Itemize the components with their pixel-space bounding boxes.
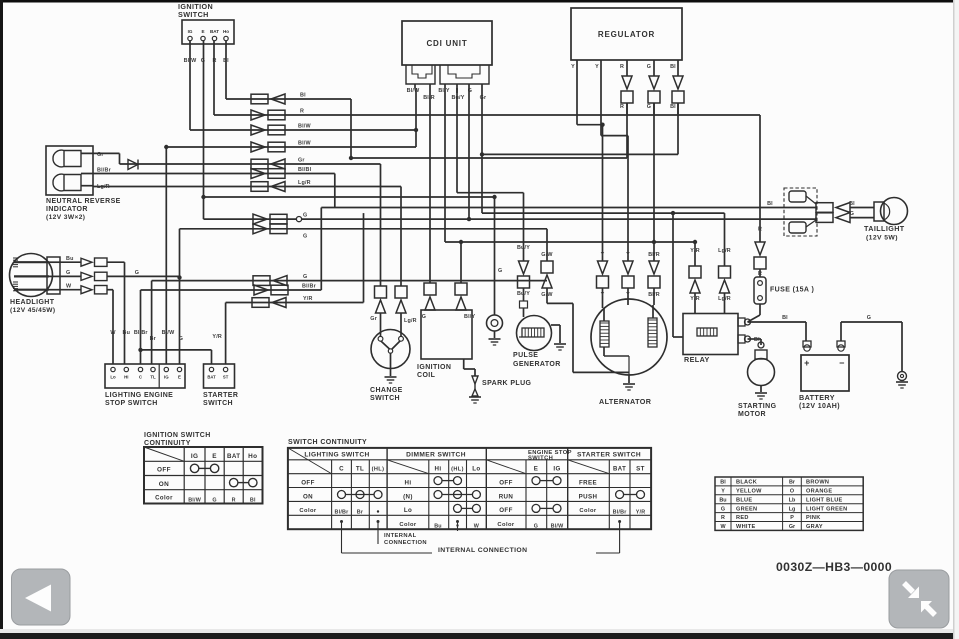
dimmer Lo circles xyxy=(454,504,462,512)
svg-text:Y: Y xyxy=(626,252,630,258)
svg-text:Bl/Bl: Bl/Bl xyxy=(298,167,312,173)
svg-text:Bu: Bu xyxy=(66,256,74,262)
svg-text:Bu/Y: Bu/Y xyxy=(451,95,464,101)
wire row Gr xyxy=(120,163,381,165)
taillight xyxy=(881,198,908,225)
svg-text:Y/R: Y/R xyxy=(636,510,646,516)
svg-text:OFF: OFF xyxy=(499,480,513,487)
svg-text:Hi: Hi xyxy=(405,480,412,487)
svg-text:Bl: Bl xyxy=(300,93,306,99)
svg-text:Gr: Gr xyxy=(789,524,796,530)
svg-text:C: C xyxy=(339,466,344,473)
svg-text:W: W xyxy=(110,330,116,336)
svg-text:Ho: Ho xyxy=(248,453,257,460)
svg-text:Gr: Gr xyxy=(298,158,305,164)
svg-text:R: R xyxy=(758,271,762,277)
relay contacts xyxy=(738,318,745,326)
svg-text:YELLOW: YELLOW xyxy=(736,489,762,495)
svg-text:CDI UNIT: CDI UNIT xyxy=(426,39,467,48)
svg-text:0030Z—HB3—0000: 0030Z—HB3—0000 xyxy=(776,560,892,574)
wire headlight W xyxy=(60,289,81,291)
svg-text:LIGHTING SWITCH: LIGHTING SWITCH xyxy=(304,452,369,459)
svg-text:E: E xyxy=(178,375,181,380)
svg-text:Br: Br xyxy=(357,510,364,516)
svg-text:ON: ON xyxy=(303,493,313,500)
svg-text:R: R xyxy=(758,227,762,233)
svg-text:COIL: COIL xyxy=(417,372,436,379)
svg-text:Color: Color xyxy=(579,508,596,514)
svg-text:Bu: Bu xyxy=(123,330,131,336)
svg-text:Y/R: Y/R xyxy=(212,334,222,340)
svg-text:G: G xyxy=(422,314,426,320)
svg-text:Bl/R: Bl/R xyxy=(648,292,660,298)
svg-text:G: G xyxy=(647,64,651,70)
wire E down xyxy=(203,41,205,219)
svg-text:Color: Color xyxy=(399,522,416,528)
svg-text:OFF: OFF xyxy=(157,467,171,474)
starter PUSH circles xyxy=(616,491,624,499)
svg-text:G/W: G/W xyxy=(541,252,553,258)
svg-text:BLACK: BLACK xyxy=(736,480,757,486)
svg-text:Br: Br xyxy=(150,336,157,342)
svg-text:(N): (N) xyxy=(403,493,413,500)
svg-text:LIGHT BLUE: LIGHT BLUE xyxy=(806,497,843,503)
svg-text:FUSE (15A ): FUSE (15A ) xyxy=(770,287,814,294)
wire row Bl/W lower xyxy=(166,146,416,148)
svg-text:G: G xyxy=(135,270,139,276)
ignition coil xyxy=(421,310,472,359)
svg-text:Bl/W: Bl/W xyxy=(188,498,201,504)
wire row Br branch xyxy=(152,280,547,282)
svg-text:OFF: OFF xyxy=(301,480,315,487)
lighting ON circles xyxy=(338,491,346,499)
svg-text:BROWN: BROWN xyxy=(806,480,829,486)
spark plug xyxy=(472,376,478,384)
fullscreen button xyxy=(889,570,949,628)
svg-text:SPARK PLUG: SPARK PLUG xyxy=(482,380,532,387)
alternator xyxy=(591,299,667,375)
regulator xyxy=(571,8,682,60)
svg-text:Y: Y xyxy=(601,292,605,298)
svg-text:Bl/W: Bl/W xyxy=(551,523,564,529)
svg-text:Color: Color xyxy=(497,522,514,528)
wire headlight G xyxy=(60,275,81,277)
wire to relay coil left xyxy=(672,213,674,337)
regulator diode stacks xyxy=(626,60,628,76)
battery xyxy=(801,355,849,391)
wire Gr from indicator xyxy=(81,152,120,154)
lighting engine stop switch xyxy=(105,364,185,388)
fuse 15A xyxy=(754,277,766,304)
dimmer Hi circles xyxy=(434,477,442,485)
svg-text:WHITE: WHITE xyxy=(736,524,756,530)
svg-text:Gr: Gr xyxy=(370,316,377,322)
svg-text:BAT: BAT xyxy=(207,375,216,380)
svg-text:E: E xyxy=(534,466,539,473)
svg-text:SWITCH: SWITCH xyxy=(370,395,400,402)
svg-text:GENERATOR: GENERATOR xyxy=(513,361,561,368)
svg-text:Lg/R: Lg/R xyxy=(718,248,731,254)
bottom dark bar xyxy=(0,633,959,639)
svg-text:G: G xyxy=(721,506,725,512)
svg-text:Bl/W: Bl/W xyxy=(162,330,175,336)
svg-text:Y: Y xyxy=(601,252,605,258)
svg-text:BLUE: BLUE xyxy=(736,497,752,503)
svg-text:Bl/W: Bl/W xyxy=(298,124,311,130)
svg-text:IGNITION SWITCH: IGNITION SWITCH xyxy=(144,432,211,439)
relay stack Lg/R xyxy=(724,213,726,266)
svg-text:(HL): (HL) xyxy=(451,467,464,473)
svg-text:Ho: Ho xyxy=(223,29,229,34)
svg-text:Lg/R: Lg/R xyxy=(404,318,417,324)
svg-text:Y: Y xyxy=(721,489,725,495)
svg-text:IG: IG xyxy=(553,466,560,473)
back button xyxy=(12,569,71,625)
relay stack Y/R xyxy=(694,242,696,266)
svg-text:G: G xyxy=(647,104,651,110)
wire row G upper to taillight xyxy=(204,218,817,220)
svg-text:Bu/Y: Bu/Y xyxy=(517,291,530,297)
svg-text:G: G xyxy=(212,498,216,504)
svg-text:Lo: Lo xyxy=(110,375,116,380)
wire row Bl/W upper xyxy=(190,129,416,131)
svg-text:G: G xyxy=(303,213,307,219)
alternator stack Y1 xyxy=(602,125,604,261)
wire Br to lighting switch xyxy=(151,281,153,364)
CDI pin stubs xyxy=(414,84,416,88)
wire Lg/R from indicator xyxy=(81,185,93,187)
svg-text:IGNITION: IGNITION xyxy=(417,364,451,371)
svg-text:SWITCH: SWITCH xyxy=(203,400,233,407)
svg-text:SWITCH: SWITCH xyxy=(178,10,209,19)
svg-text:Bl: Bl xyxy=(782,315,788,321)
svg-text:Color: Color xyxy=(299,508,316,514)
svg-text:RED: RED xyxy=(736,515,749,521)
svg-text:STOP SWITCH: STOP SWITCH xyxy=(105,400,158,407)
dimmer N circles xyxy=(434,491,442,499)
svg-text:Gr: Gr xyxy=(480,95,487,101)
svg-text:Hi: Hi xyxy=(124,375,128,380)
relay xyxy=(683,314,738,355)
svg-text:Bu: Bu xyxy=(434,523,442,529)
continuity OFF circles xyxy=(190,464,198,472)
svg-text:E: E xyxy=(212,453,217,460)
svg-text:+: + xyxy=(804,358,810,368)
wire row Bl/Bl xyxy=(81,173,335,175)
svg-text:G: G xyxy=(66,270,70,276)
wire headlight Bu xyxy=(60,261,81,263)
svg-text:G: G xyxy=(867,315,871,321)
internal connection small xyxy=(377,520,380,523)
svg-text:Y: Y xyxy=(626,292,630,298)
svg-text:ORANGE: ORANGE xyxy=(806,489,832,495)
wire Bl/W to lighting switch xyxy=(165,147,167,364)
svg-text:Y/R: Y/R xyxy=(303,296,313,302)
svg-text:Bl/Br: Bl/Br xyxy=(97,167,112,173)
svg-text:Y/R: Y/R xyxy=(690,248,700,254)
svg-text:MOTOR: MOTOR xyxy=(738,411,766,418)
wire Ho down xyxy=(225,41,227,99)
wire IG down xyxy=(189,41,191,130)
engine stop circles row3 xyxy=(532,504,540,512)
svg-text:RELAY: RELAY xyxy=(684,355,710,364)
pulse generator left stack xyxy=(456,88,458,193)
svg-text:GRAY: GRAY xyxy=(806,524,823,530)
wire row R main bus xyxy=(214,114,760,116)
wire regulator Y2 down xyxy=(600,60,602,136)
svg-text:ON: ON xyxy=(159,481,169,488)
taillight dashed box xyxy=(784,188,817,236)
CDI unit xyxy=(402,21,492,65)
wire coil to spark plug xyxy=(463,359,465,369)
svg-text:O: O xyxy=(790,489,794,495)
wire pulse generator loop xyxy=(547,302,573,304)
alternator stack Y2 xyxy=(627,136,629,261)
svg-text:−: − xyxy=(839,358,845,368)
svg-text:G/W: G/W xyxy=(541,292,553,298)
wire Bl regulator 5 xyxy=(677,103,679,154)
svg-text:G: G xyxy=(179,336,183,342)
svg-text:STARTER: STARTER xyxy=(203,392,238,399)
svg-text:INTERNAL CONNECTION: INTERNAL CONNECTION xyxy=(438,547,527,554)
change switch xyxy=(371,330,410,369)
svg-text:W: W xyxy=(66,283,72,289)
svg-text:TL: TL xyxy=(356,466,364,473)
svg-text:Lb: Lb xyxy=(789,497,796,503)
wire taillight Bl long xyxy=(321,207,816,209)
svg-text:FREE: FREE xyxy=(579,480,597,487)
svg-text:Bl/Br: Bl/Br xyxy=(613,510,628,516)
svg-text:Lg/R: Lg/R xyxy=(298,180,311,186)
svg-text:CONTINUITY: CONTINUITY xyxy=(144,440,191,447)
continuity ON circles xyxy=(230,478,238,486)
neutral reverse indicator xyxy=(46,146,93,195)
svg-text:Lg: Lg xyxy=(789,506,796,512)
svg-text:BAT: BAT xyxy=(613,467,626,473)
svg-text:LIGHT GREEN: LIGHT GREEN xyxy=(806,506,848,512)
svg-text:CONNECTION: CONNECTION xyxy=(384,540,427,546)
svg-text:ST: ST xyxy=(636,466,645,473)
top black edge xyxy=(0,0,959,3)
svg-text:G: G xyxy=(534,523,538,529)
svg-text:Y: Y xyxy=(571,64,575,70)
alternator stack Bl/R xyxy=(653,103,655,261)
svg-text:BATTERY: BATTERY xyxy=(799,393,835,402)
svg-text:Lg/R: Lg/R xyxy=(97,184,110,190)
svg-text:HEADLIGHT: HEADLIGHT xyxy=(10,299,55,306)
svg-text:CHANGE: CHANGE xyxy=(370,387,403,394)
svg-text:(HL): (HL) xyxy=(372,467,385,473)
svg-text:INDICATOR: INDICATOR xyxy=(46,206,88,213)
svg-text:GREEN: GREEN xyxy=(736,506,757,512)
svg-text:Y: Y xyxy=(595,64,599,70)
svg-text:G: G xyxy=(850,211,854,217)
svg-text:ST: ST xyxy=(223,375,229,380)
svg-text:Bu/Y: Bu/Y xyxy=(517,245,530,251)
engine stop circles row1 xyxy=(532,477,540,485)
wire color legend table xyxy=(715,477,863,530)
svg-text:IG: IG xyxy=(191,453,199,460)
svg-text:G: G xyxy=(303,234,307,240)
svg-text:Bl/W: Bl/W xyxy=(407,88,420,94)
svg-text:SWITCH CONTINUITY: SWITCH CONTINUITY xyxy=(288,439,367,446)
svg-text:(12V 3W×2): (12V 3W×2) xyxy=(46,214,85,221)
svg-text:Bl: Bl xyxy=(767,201,773,207)
pulse generator right stack xyxy=(546,229,548,261)
svg-text:Br: Br xyxy=(789,480,796,486)
svg-text:OFF: OFF xyxy=(499,507,513,514)
headlight xyxy=(10,254,53,297)
svg-text:ALTERNATOR: ALTERNATOR xyxy=(599,397,652,406)
wire row Bl to regulator xyxy=(226,98,351,100)
pulse generator ground xyxy=(551,324,560,326)
svg-text:Bl: Bl xyxy=(849,201,855,207)
right page border line xyxy=(953,0,955,639)
svg-text:RUN: RUN xyxy=(499,493,514,500)
chassis ground bolt xyxy=(898,372,907,381)
wire to starter BAT xyxy=(141,349,212,351)
svg-text:REGULATOR: REGULATOR xyxy=(598,30,655,39)
svg-text:PULSE: PULSE xyxy=(513,352,538,359)
svg-text:Bl: Bl xyxy=(670,64,676,70)
svg-text:PUSH: PUSH xyxy=(579,493,598,500)
svg-text:Bl/R: Bl/R xyxy=(648,252,660,258)
wire row Bl/Br lower xyxy=(141,289,322,291)
svg-text:P: P xyxy=(790,515,794,521)
svg-text:Lo: Lo xyxy=(472,466,480,473)
wire regulator Y1 down xyxy=(576,60,578,125)
svg-text:(12V 45/45W): (12V 45/45W) xyxy=(10,307,55,314)
svg-text:Bl/R: Bl/R xyxy=(423,95,435,101)
wire G horizontal xyxy=(204,196,495,198)
wire R bus down to fuse xyxy=(759,115,761,242)
svg-text:IG: IG xyxy=(164,375,169,380)
svg-text:Bl/Br: Bl/Br xyxy=(134,330,149,336)
change switch connector stacks xyxy=(380,164,382,286)
wire BAT down xyxy=(213,41,215,115)
svg-text:Y/R: Y/R xyxy=(690,296,700,302)
pulse generator xyxy=(517,316,552,351)
svg-text:STARTER SWITCH: STARTER SWITCH xyxy=(577,452,641,459)
svg-text:G: G xyxy=(303,274,307,280)
svg-text:Color: Color xyxy=(155,496,173,502)
svg-text:TL: TL xyxy=(150,375,156,380)
wire Bl/Br to lighting switch xyxy=(140,290,142,364)
svg-text:Bl/W: Bl/W xyxy=(298,141,311,147)
svg-text:DIMMER SWITCH: DIMMER SWITCH xyxy=(406,452,466,459)
svg-text:(12V 5W): (12V 5W) xyxy=(866,235,898,242)
left black edge xyxy=(0,0,3,639)
wire battery minus to ground xyxy=(841,321,902,323)
internal connection large xyxy=(340,520,343,523)
svg-text:STARTING: STARTING xyxy=(738,403,777,410)
wire taillight G connector xyxy=(815,218,817,220)
wire branch down to Bl/Br row xyxy=(320,208,322,291)
svg-text:G: G xyxy=(498,268,502,274)
svg-text:Bu: Bu xyxy=(719,497,726,503)
svg-text:BAT: BAT xyxy=(227,453,240,460)
svg-text:BAT: BAT xyxy=(210,29,219,34)
svg-text:PINK: PINK xyxy=(806,515,821,521)
starter switch xyxy=(204,364,235,388)
svg-text:R: R xyxy=(300,109,304,115)
svg-text:Bl: Bl xyxy=(250,498,256,504)
diode xyxy=(128,160,138,170)
wire Bl/Y bus xyxy=(444,88,446,242)
svg-text:R: R xyxy=(721,515,725,521)
svg-text:Bl/Br: Bl/Br xyxy=(335,510,350,516)
svg-text:TAILLIGHT: TAILLIGHT xyxy=(864,224,905,233)
wire fuse to relay xyxy=(759,304,761,315)
svg-text:LIGHTING ENGINE: LIGHTING ENGINE xyxy=(105,392,173,399)
svg-text:IG: IG xyxy=(188,29,193,34)
svg-text:INTERNAL: INTERNAL xyxy=(384,533,417,539)
svg-text:Bl/Y: Bl/Y xyxy=(464,314,475,320)
alternator ground xyxy=(628,375,630,383)
wire Bl/Bl down to taillight Bl line xyxy=(334,174,336,208)
wire row G lower xyxy=(180,228,548,230)
svg-text:Lg/R: Lg/R xyxy=(718,296,731,302)
wire row Lg/R xyxy=(93,186,401,188)
CDI connector blocks xyxy=(406,65,435,84)
ring terminal xyxy=(494,197,496,315)
svg-text:Bl/Y: Bl/Y xyxy=(438,88,449,94)
wire G to lighting switch xyxy=(179,229,181,364)
svg-text:Bl/Br: Bl/Br xyxy=(302,284,317,290)
svg-text:Bl: Bl xyxy=(720,480,726,486)
wire row Y/R xyxy=(226,302,364,304)
svg-text:R: R xyxy=(232,498,236,504)
svg-text:Bl: Bl xyxy=(670,104,676,110)
svg-text:R: R xyxy=(620,104,624,110)
svg-text:E: E xyxy=(201,29,204,34)
svg-text:Lo: Lo xyxy=(404,507,412,514)
wire relay to battery xyxy=(748,321,807,323)
starting motor xyxy=(758,342,764,348)
svg-text:W: W xyxy=(474,523,480,529)
wire taillight Bl connector xyxy=(816,203,833,213)
wire Gr to relay xyxy=(481,93,483,213)
svg-text:R: R xyxy=(620,64,624,70)
svg-text:(12V 10AH): (12V 10AH) xyxy=(799,403,840,410)
svg-text:Hi: Hi xyxy=(435,466,442,473)
wire relay to starting motor xyxy=(748,338,762,340)
ignition coil connector stacks xyxy=(429,93,431,283)
svg-text:SWITCH: SWITCH xyxy=(528,455,553,461)
svg-text:NEUTRAL REVERSE: NEUTRAL REVERSE xyxy=(46,198,121,205)
